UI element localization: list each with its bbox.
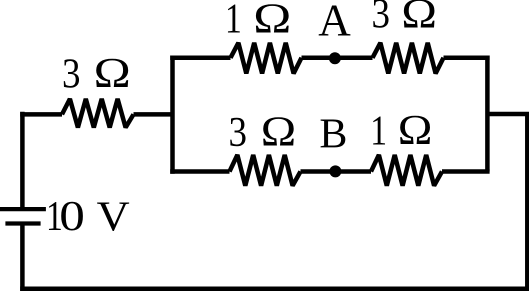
svg-text:3: 3 <box>228 109 246 156</box>
svg-text:Ω: Ω <box>398 106 433 153</box>
svg-text:1: 1 <box>225 0 242 42</box>
svg-text:3: 3 <box>371 0 389 37</box>
svg-text:A: A <box>318 0 351 46</box>
svg-text:V: V <box>97 193 130 240</box>
svg-text:B: B <box>319 112 347 158</box>
svg-text:Ω: Ω <box>253 0 291 42</box>
svg-text:0: 0 <box>59 193 85 240</box>
svg-text:1: 1 <box>370 108 387 154</box>
svg-text:Ω: Ω <box>261 108 296 155</box>
svg-text:Ω: Ω <box>94 50 131 96</box>
svg-text:3: 3 <box>62 50 80 97</box>
svg-text:Ω: Ω <box>401 0 437 37</box>
